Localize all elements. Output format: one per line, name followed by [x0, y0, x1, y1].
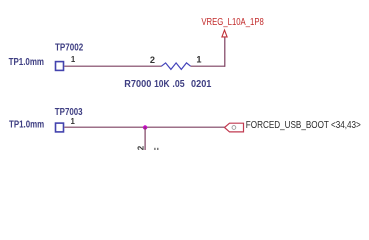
wire TP7003 to off-page connector FORCED_USB_BOOT: [64, 126, 224, 128]
test point TP7002 pad: [56, 62, 64, 71]
off-page connector FORCED_USB_BOOT: [225, 123, 244, 132]
off-page connector inner circle: [232, 126, 236, 130]
svg-text:2: 2: [136, 145, 145, 150]
wire riser up to power symbol: [224, 37, 226, 67]
svg-text:TP1.0mm: TP1.0mm: [9, 119, 45, 130]
svg-text:1: 1: [71, 55, 76, 64]
svg-text:0201: 0201: [191, 79, 212, 90]
svg-text:1: 1: [71, 117, 76, 126]
wire TP7002 to R7000 pin 2: [64, 65, 161, 67]
wire junction down to component below (off-sheet): [144, 127, 146, 150]
svg-text:TP7002: TP7002: [55, 42, 83, 53]
junction node on FORCED_USB_BOOT net: [143, 125, 147, 129]
svg-text:R7000: R7000: [124, 79, 151, 90]
wire R7000 pin 1 to riser corner: [191, 65, 225, 67]
partial rotated text of component below (cut off at bottom edge): [154, 148, 155, 150]
test point TP7003 pad: [56, 123, 64, 132]
power symbol VREG_L10A_1P8 (up arrow): [222, 30, 227, 37]
svg-text:TP1.0mm: TP1.0mm: [9, 57, 45, 68]
svg-text:.05: .05: [172, 79, 185, 90]
svg-text:10K: 10K: [154, 79, 170, 90]
svg-text:1: 1: [196, 55, 201, 65]
svg-text:VREG_L10A_1P8: VREG_L10A_1P8: [201, 17, 263, 28]
svg-text:2: 2: [150, 55, 155, 65]
svg-text:FORCED_USB_BOOT <34,43>: FORCED_USB_BOOT <34,43>: [246, 120, 361, 131]
svg-text:TP7003: TP7003: [55, 107, 83, 118]
resistor R7000: [161, 63, 190, 70]
